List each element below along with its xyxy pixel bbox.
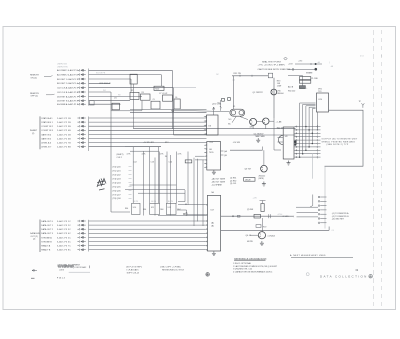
- svg-text:Q4 4K: Q4 4K: [246, 235, 252, 237]
- wire faint: [312, 154, 314, 179]
- transistor Q1: [271, 89, 277, 95]
- stub: [129, 174, 132, 176]
- long wire net DATA2: [174, 134, 296, 136]
- gate U2C: [141, 94, 151, 100]
- connector pin symbol G1 row 5: [77, 87, 85, 89]
- svg-text:LB: P-IV GI TEPL: LB: P-IV GI TEPL: [126, 266, 143, 268]
- svg-text:+ L AB: + L AB: [276, 121, 283, 124]
- wire: [138, 192, 185, 194]
- svg-text:3-A07-P3 2C: 3-A07-P3 2C: [57, 224, 71, 227]
- bus wire vertical 5: [311, 109, 313, 144]
- pin of J2: [205, 233, 208, 235]
- wire: [288, 74, 302, 76]
- transistor Q4: [258, 232, 265, 239]
- wire: [232, 75, 268, 77]
- pin 2 of U5: [204, 120, 207, 122]
- wire: [263, 150, 265, 165]
- svg-text:W1 TW PR: W1 TW PR: [96, 73, 106, 75]
- svg-text:(T2) QD2: (T2) QD2: [113, 174, 121, 176]
- svg-text:4K/2W: 4K/2W: [247, 241, 253, 243]
- wire: [297, 212, 319, 214]
- svg-text:3-A07-P3 3C: 3-A07-P3 3C: [57, 228, 71, 231]
- svg-text:CAUTION SEE NOTE 3 BEFORE: CAUTION SEE NOTE 3 BEFORE: [258, 68, 291, 71]
- svg-text:(T4) QD4: (T4) QD4: [113, 182, 122, 184]
- terminal TB1-1: [296, 126, 297, 127]
- underline light: [69, 271, 90, 273]
- svg-text:3-A07-P3 6C: 3-A07-P3 6C: [57, 240, 71, 243]
- transistor Q2B: [263, 118, 269, 124]
- wire G3 row 4: [89, 232, 205, 234]
- svg-text:-(1) TO REMOTE A: -(1) TO REMOTE A: [332, 212, 349, 215]
- wire: [177, 209, 187, 211]
- terminal TB2-7: [318, 222, 320, 224]
- svg-text:-(B) OUT GATE: -(B) OUT GATE: [212, 180, 226, 183]
- bus wire stub: [309, 106, 315, 108]
- junction: [315, 63, 316, 64]
- svg-text:3-A07-P3 4C: 3-A07-P3 4C: [57, 232, 71, 235]
- svg-text:DATA OUT 0: DATA OUT 0: [41, 220, 54, 223]
- wire vertical ladder: [187, 152, 189, 204]
- wire vertical ladder: [143, 152, 145, 216]
- ground below J2: [212, 251, 216, 256]
- stub: [129, 170, 132, 172]
- svg-text:C5: C5: [153, 99, 155, 101]
- svg-text:Q2 2N2907: Q2 2N2907: [254, 133, 264, 135]
- svg-text:A01 REM 2 4-A07-P1 2: A01 REM 2 4-A07-P1 2: [57, 74, 79, 77]
- svg-text:(3) C41: (3) C41: [230, 183, 236, 185]
- connector pin symbol G1 row 9: [77, 103, 85, 105]
- svg-text:A01 REM 1 4-A07-P1 1: A01 REM 1 4-A07-P1 1: [57, 69, 79, 72]
- svg-text:R50 220: R50 220: [288, 91, 295, 93]
- svg-text:ON (2): ON (2): [31, 77, 38, 79]
- wire vertical: [130, 79, 132, 92]
- wire vertical ladder: [132, 147, 134, 203]
- harness line G1: [88, 69, 90, 106]
- connector pin symbol G3 row 3: [77, 228, 85, 230]
- svg-text:SPARE: SPARE: [306, 71, 313, 74]
- group bracket G2: [39, 116, 41, 149]
- svg-text:OUT (2): OUT (2): [31, 236, 39, 238]
- svg-text:(T1) QD1: (T1) QD1: [113, 170, 121, 172]
- svg-text:REMOTE: REMOTE: [30, 75, 40, 77]
- ground: [260, 241, 264, 246]
- svg-text:1 R64 5 OPTIONAL: 1 R64 5 OPTIONAL: [233, 262, 252, 265]
- svg-text:DATA OUT 1: DATA OUT 1: [41, 224, 54, 227]
- harness line G3: [88, 220, 90, 252]
- one-shot U11: [150, 203, 160, 214]
- tick: [310, 63, 312, 65]
- wire G1 row 4: [89, 82, 110, 84]
- wire: [295, 63, 322, 65]
- one-shot U10: [132, 203, 140, 214]
- connector pin symbol G3 row 2: [77, 224, 85, 226]
- wire: [125, 146, 161, 148]
- gate U4: [185, 160, 192, 163]
- wire G3 row 6: [89, 241, 205, 243]
- wire TB1 row 6: [294, 143, 320, 145]
- connector pin symbol G1 row 4: [77, 82, 85, 84]
- wire TB1 row 1: [294, 126, 320, 128]
- terminal TB1-9: [296, 153, 297, 154]
- svg-text:CR2 1N4148: CR2 1N4148: [99, 83, 111, 85]
- wire faint vertical: [324, 166, 326, 228]
- svg-text:BL/TN: BL/TN: [151, 201, 157, 203]
- wire TB1 row 7: [294, 146, 320, 148]
- connector pin symbol G3 row 8: [77, 249, 85, 251]
- svg-text:(2): (2): [33, 239, 36, 241]
- pin 7 of U6: [204, 167, 207, 169]
- terminal TB2-5: [318, 213, 320, 215]
- ground: [256, 138, 260, 143]
- wire G1 row 7: [89, 95, 142, 97]
- svg-text:R3: R3: [142, 92, 144, 94]
- svg-text:4-704: 4-704: [278, 214, 283, 216]
- svg-text:1/4W: 1/4W: [277, 86, 282, 88]
- svg-text:2-A07-P2 2B: 2-A07-P2 2B: [57, 121, 71, 124]
- wire: [288, 68, 316, 70]
- gate U1B: [112, 103, 119, 110]
- svg-text:(T6) QD6: (T6) QD6: [113, 190, 121, 192]
- wire: [178, 204, 205, 206]
- transistor Q2A: [250, 118, 257, 125]
- arrowhead: [171, 110, 173, 112]
- svg-text:(REF) RTN: (REF) RTN: [58, 66, 69, 68]
- wire G1 row 9: [89, 103, 121, 105]
- svg-text:DELAY: DELAY: [245, 178, 252, 181]
- stub: [129, 197, 132, 199]
- svg-text:W2: W2: [103, 90, 106, 92]
- wire vertical: [171, 70, 173, 128]
- tick: [251, 75, 253, 77]
- svg-text:COUNT IN 2: COUNT IN 2: [41, 126, 54, 128]
- svg-text:(2) R62: (2) R62: [230, 180, 236, 182]
- svg-text:REVISIONS/COL TITLE: REVISIONS/COL TITLE: [162, 269, 185, 271]
- wire: [251, 234, 259, 236]
- svg-text:LEVEL A 6: LEVEL A 6: [41, 142, 52, 145]
- wire vertical: [184, 190, 186, 202]
- svg-text:+5V R10 R11: +5V R10 R11: [143, 142, 154, 144]
- svg-text:E04 ENB A 4-A07-P1 9: E04 ENB A 4-A07-P1 9: [57, 103, 79, 106]
- svg-text:B01 SET 2 4-A07-P1 4: B01 SET 2 4-A07-P1 4: [57, 82, 79, 85]
- bus wire vertical 4: [308, 107, 310, 147]
- svg-text:(1) R61: (1) R61: [230, 178, 236, 180]
- wire: [111, 211, 130, 213]
- svg-text:R64: R64: [160, 209, 163, 211]
- wire: [221, 215, 294, 217]
- svg-text:COUNT IN 3: COUNT IN 3: [41, 130, 54, 132]
- connector pin symbol G1 row 2: [77, 74, 85, 76]
- stub: [129, 194, 132, 196]
- stub: [129, 186, 132, 188]
- circled plus mark: [306, 273, 309, 276]
- svg-text:(B): (B): [211, 225, 214, 227]
- ground below U6: [212, 170, 216, 175]
- gate U2D: [163, 95, 173, 101]
- svg-text:A10 B: A10 B: [288, 86, 294, 89]
- connector pin symbol G1 row 6: [77, 91, 85, 93]
- svg-text:R2: R2: [131, 90, 133, 92]
- svg-text:2 LAST REUSED SYMBOLS R74,C48: 2 LAST REUSED SYMBOLS R74,C48,Q 4 BLMT: [233, 265, 278, 268]
- svg-text:+ P.S. +15 VDC TP-1 (REF): + P.S. +15 VDC TP-1 (REF): [258, 64, 285, 66]
- svg-text:C02 CLK A 4-A07-P1 5: C02 CLK A 4-A07-P1 5: [57, 87, 79, 90]
- wire: [158, 214, 207, 216]
- svg-text:(REF) SIG: (REF) SIG: [58, 64, 68, 66]
- stub: [129, 166, 132, 168]
- wire: [257, 121, 263, 123]
- connector pin symbol G2 row 4: [77, 129, 85, 131]
- component (dark) CR9: [299, 86, 305, 89]
- fold line: [381, 30, 383, 306]
- circled plus mark: [206, 273, 209, 276]
- gate U1A: [90, 101, 95, 105]
- gate U2A: [154, 86, 164, 90]
- wire vertical: [233, 76, 235, 110]
- svg-text:Q3 907: Q3 907: [245, 169, 252, 171]
- svg-text:2-A07-P2 7B: 2-A07-P2 7B: [57, 142, 71, 145]
- svg-text:3-A07-P3 1C: 3-A07-P3 1C: [57, 220, 71, 223]
- leader: [46, 93, 55, 96]
- wire TB1 row 8: [294, 149, 320, 151]
- pin of J2: [205, 204, 208, 206]
- svg-text:-(C) SPARE: -(C) SPARE: [212, 183, 223, 186]
- wire vertical: [301, 75, 303, 85]
- wire: [274, 149, 281, 151]
- wire G1 row 6: [89, 91, 111, 93]
- terminal pair: [232, 215, 240, 217]
- svg-text:(SHIFT): (SHIFT): [117, 154, 124, 156]
- svg-text:SEAL TEST POINT: SEAL TEST POINT: [262, 61, 282, 64]
- wire: [296, 206, 318, 208]
- title stamp circle: [369, 275, 372, 278]
- wire TB1 row 4: [294, 136, 320, 138]
- svg-text:REMOTE: REMOTE: [30, 93, 40, 95]
- svg-text:SOFT COL-B: SOFT COL-B: [127, 273, 140, 275]
- svg-text:(V) B: (V) B: [60, 270, 65, 272]
- wire vertical ladder: [197, 159, 199, 222]
- svg-text:R64: R64: [125, 208, 128, 210]
- svg-text:2-A07-P2 6B: 2-A07-P2 6B: [57, 137, 71, 140]
- svg-text:= 2N404: = 2N404: [268, 235, 276, 237]
- svg-text:(NPN): (NPN): [259, 178, 265, 180]
- pin of J2: [205, 245, 208, 247]
- resistor R70: [254, 214, 261, 218]
- svg-text:+5V:: +5V:: [298, 60, 303, 62]
- wire vertical ladder: [154, 158, 156, 216]
- wire TB1 row 2: [294, 129, 320, 131]
- wire vertical: [273, 118, 275, 150]
- junction: [315, 68, 317, 70]
- fold line: [373, 30, 375, 306]
- pin of J2: [205, 237, 208, 239]
- relay K1 contacts (stadium): [230, 109, 245, 116]
- svg-text:(T7) QD7: (T7) QD7: [113, 194, 121, 196]
- svg-text:U10: U10: [133, 207, 136, 209]
- svg-text:F 16 L 4: F 16 L 4: [57, 278, 66, 280]
- pin 1 of U5: [204, 116, 207, 118]
- svg-text:STATUS A 1: STATUS A 1: [41, 117, 53, 120]
- svg-text:-(2) TO REMOTE B: -(2) TO REMOTE B: [332, 216, 350, 218]
- wire vertical ladder: [159, 152, 161, 204]
- wire TB1 row 5: [294, 139, 320, 141]
- pin of J2: [205, 214, 208, 216]
- antenna mark: [362, 103, 365, 108]
- svg-text:OUTPUT (B) TO REMOTE UNIT: OUTPUT (B) TO REMOTE UNIT: [322, 139, 358, 141]
- wire G2 row 4: [89, 129, 207, 131]
- connector pin symbol G3 row 6: [77, 240, 85, 242]
- harness line G2: [88, 117, 90, 152]
- svg-text:U2: U2: [165, 93, 167, 95]
- underline: [58, 265, 75, 267]
- wire TB1 row 3: [294, 132, 320, 134]
- svg-text:STROBE B: STROBE B: [41, 241, 52, 243]
- wire vertical ladder: [193, 158, 195, 226]
- svg-text:A. NEXT HIGHER ASSY USED: A. NEXT HIGHER ASSY USED: [290, 254, 326, 257]
- gate arc at U8 input: [278, 135, 283, 145]
- junction dots on staircase: [299, 156, 301, 158]
- svg-text:2-A07-P2 5B: 2-A07-P2 5B: [57, 133, 71, 136]
- svg-text:BL/TN: BL/TN: [133, 201, 139, 203]
- pin 2 of U6: [204, 148, 207, 150]
- underline: [234, 259, 265, 261]
- svg-text:MATCHED: MATCHED: [256, 135, 266, 138]
- wire faint: [174, 87, 196, 89]
- terminal TB1-6: [296, 143, 297, 144]
- connector pin symbol G1 row 8: [77, 100, 85, 102]
- gate U3A: [151, 101, 160, 109]
- svg-text:OFF (2): OFF (2): [31, 96, 39, 98]
- wire: [187, 214, 205, 216]
- svg-text:BL/TN: BL/TN: [168, 201, 174, 203]
- svg-text:1N4004: 1N4004: [277, 93, 284, 95]
- svg-text:(2): (2): [32, 133, 35, 135]
- long wire net DATA1: [134, 128, 296, 130]
- relay K1: [130, 74, 137, 84]
- wire vertical: [141, 101, 143, 111]
- stub: [129, 190, 132, 192]
- svg-text:3-A07-P3 5C: 3-A07-P3 5C: [57, 236, 71, 239]
- left pointer arrow: [32, 270, 37, 272]
- terminal TB1-4: [296, 136, 297, 137]
- svg-text:PL 1BD: PL 1BD: [311, 78, 318, 80]
- svg-text:DATA BUS: DATA BUS: [30, 232, 40, 235]
- terminal TB2-1: [318, 196, 320, 198]
- svg-text:R72: R72: [263, 226, 266, 228]
- pin 4 of U6: [204, 155, 207, 157]
- wire bend: [310, 195, 313, 208]
- wire vertical: [220, 100, 222, 111]
- connector pin symbol G3 row 1: [77, 220, 85, 222]
- junction node: [294, 141, 296, 143]
- bus wire stub: [312, 108, 315, 110]
- wire TB1 row 10: [294, 156, 320, 158]
- svg-text:C13: C13: [151, 162, 154, 164]
- terminal TB1-5: [296, 140, 297, 141]
- IC U6 (register): [207, 142, 221, 171]
- wire vertical: [186, 210, 188, 215]
- svg-text:R12: R12: [165, 142, 168, 144]
- wire to arrow: [174, 110, 196, 112]
- wire: [125, 189, 185, 191]
- off-page arrow above U5: [213, 107, 215, 115]
- svg-text:D03 RST B 4-A07-P1 8: D03 RST B 4-A07-P1 8: [57, 100, 79, 103]
- connector pin symbol G2 row 6: [77, 137, 85, 139]
- svg-text:(SEE NOTE 2) TYP: (SEE NOTE 2) TYP: [327, 144, 349, 146]
- wire G2 row 5: [89, 133, 207, 135]
- connector pin symbol G2 row 7: [77, 142, 85, 144]
- long wire to hook: [221, 229, 330, 231]
- svg-text:L BB. COPY + LP BBC: L BB. COPY + LP BBC: [160, 266, 181, 268]
- leader: [44, 75, 53, 76]
- connector pin symbol G3 row 5: [77, 236, 85, 238]
- pin of J2: [205, 228, 208, 230]
- pin 5 of U5: [204, 133, 207, 135]
- indicator DS2: [299, 80, 310, 83]
- inspection scribble: [97, 179, 106, 191]
- wire: [195, 155, 204, 157]
- wire vertical ladder: [170, 155, 172, 216]
- terminal TB1-10: [296, 157, 297, 158]
- connector pin symbol G2 row 3: [77, 125, 85, 127]
- svg-text:U12: U12: [168, 207, 171, 209]
- wire G2 row 7: [89, 142, 207, 144]
- diamond symbol: [284, 57, 288, 60]
- svg-text:7400: 7400: [155, 88, 159, 90]
- ground: [262, 182, 266, 187]
- capacitor plate: [269, 214, 271, 218]
- indicator DS1: [299, 77, 310, 80]
- terminal circle: [292, 69, 294, 71]
- svg-text:READY A: READY A: [41, 245, 51, 248]
- contact circle: [231, 111, 235, 115]
- wire vertical ladder: [202, 160, 204, 226]
- svg-text:2-A07-P2 8B: 2-A07-P2 8B: [57, 146, 71, 149]
- svg-text:STATUS B 1: STATUS B 1: [41, 121, 53, 124]
- tick: [239, 75, 241, 77]
- component C44: [256, 225, 261, 228]
- svg-text:READY B: READY B: [41, 249, 51, 252]
- svg-text:Q1 2N2222: Q1 2N2222: [253, 92, 264, 94]
- connector pin symbol G2 row 5: [77, 133, 85, 135]
- stub: [129, 182, 132, 184]
- pins right of U6: [221, 150, 224, 152]
- svg-text:CLK 2: CLK 2: [117, 157, 122, 159]
- svg-text:DATA OUT 2: DATA OUT 2: [41, 228, 54, 231]
- svg-text:R31 2W: R31 2W: [234, 73, 241, 75]
- svg-text:DATA OUT 3: DATA OUT 3: [41, 232, 54, 235]
- svg-text:-(A) OUT GATE: -(A) OUT GATE: [212, 177, 226, 180]
- wire: [278, 141, 284, 143]
- wire hook: [262, 147, 264, 151]
- bus wire vertical 1: [299, 103, 301, 157]
- wire: [297, 216, 319, 218]
- svg-text:+5V SW: +5V SW: [233, 142, 241, 144]
- component box DL1: [244, 178, 255, 182]
- IC U20 (regulator): [317, 93, 329, 112]
- IC J2 connector block: [207, 195, 220, 251]
- svg-text:2-A07-P2 4B: 2-A07-P2 4B: [57, 129, 71, 132]
- svg-text:C12: C12: [133, 162, 136, 164]
- wire TB1 row 9: [294, 153, 320, 155]
- wire G3 row 8: [89, 249, 205, 251]
- wire G2 row 1: [89, 117, 207, 119]
- svg-text:I LP-BI DAT5: I LP-BI DAT5: [127, 269, 140, 272]
- component C21: [222, 98, 225, 101]
- gate U2B: [130, 92, 139, 99]
- connector pin symbol G1 row 7: [77, 95, 85, 97]
- wire: [178, 201, 185, 203]
- wire G1 row 2: [89, 74, 162, 76]
- wire: [130, 150, 159, 152]
